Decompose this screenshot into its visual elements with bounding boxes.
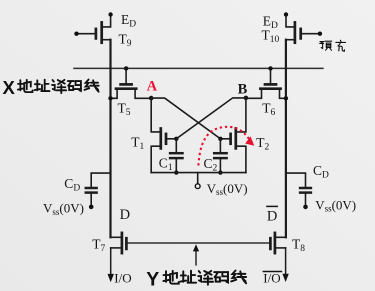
wire X address decode line — [74, 67, 323, 69]
capacitor CD (right) — [286, 173, 311, 209]
capacitor C2 — [214, 139, 226, 175]
wire Y-select input with up arrow — [193, 244, 199, 265]
node B — [244, 96, 249, 101]
wire left bit line (lower to I/O) — [110, 248, 112, 277]
node I/O-bar arrow (right) — [282, 274, 288, 282]
node ED terminal (right) — [284, 12, 288, 16]
transistor T1 — [151, 98, 178, 173]
transistor T2 — [218, 98, 246, 173]
wire Y address decode line — [126, 242, 270, 244]
svg-text:B: B — [238, 81, 248, 97]
label precharge (预充) — [320, 40, 346, 51]
wire right bit line (lower to I/O-bar) — [285, 248, 287, 277]
svg-text:Y: Y — [146, 268, 159, 290]
ground Vss terminal (centre) — [195, 173, 200, 189]
label Y address decode line (Y地址译码线) — [146, 268, 246, 290]
label X address decode line (X地址译码线) — [3, 77, 99, 98]
svg-text:I/O: I/O — [114, 270, 131, 285]
transistor T6 — [246, 66, 288, 100]
node A — [149, 96, 154, 101]
svg-text:Vss(0V): Vss(0V) — [315, 197, 356, 213]
wire right bit line (upper) — [285, 40, 287, 238]
svg-text:Vss(0V): Vss(0V) — [43, 201, 84, 217]
wire cell bottom rail — [151, 172, 246, 174]
svg-text:I/O: I/O — [263, 270, 280, 285]
svg-text:D: D — [120, 207, 130, 223]
wire cross-coupling A to T2 gate — [151, 98, 220, 139]
transistor T8 — [270, 233, 286, 253]
wire cross-coupling B to T1 gate — [176, 98, 246, 139]
svg-text:A: A — [147, 79, 158, 95]
node I/O arrow (left) — [108, 274, 114, 282]
svg-text:X: X — [3, 77, 16, 98]
svg-text:D: D — [267, 208, 277, 224]
svg-text:Vss(0V): Vss(0V) — [207, 181, 248, 197]
wire left bit line (upper) — [109, 40, 111, 238]
transistor T5 — [108, 66, 151, 100]
red feedback arrow (dotted) — [198, 127, 254, 166]
capacitor CD (left) — [86, 173, 111, 209]
node ED terminal (left) — [108, 12, 112, 16]
transistor T9 — [74, 15, 110, 43]
transistor T10 — [286, 15, 322, 43]
transistor T7 — [111, 233, 127, 253]
capacitor C1 — [170, 139, 182, 175]
